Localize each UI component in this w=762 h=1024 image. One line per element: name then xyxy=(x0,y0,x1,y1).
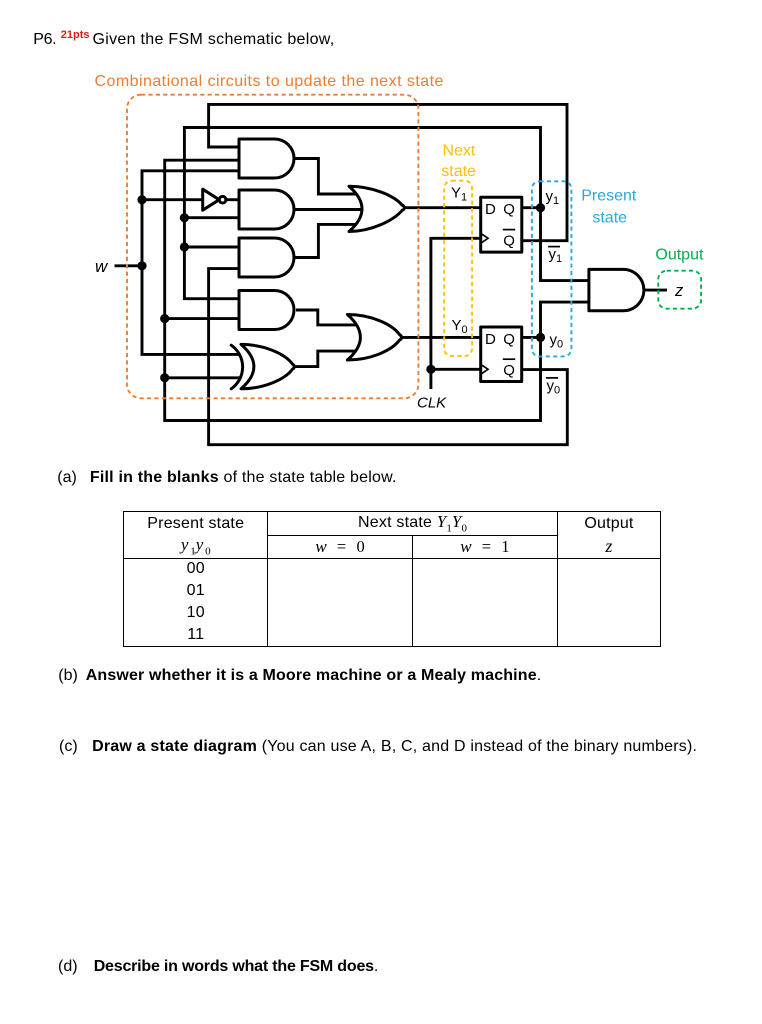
FF0 clock triangle xyxy=(481,364,488,374)
svg-text:z: z xyxy=(674,282,684,300)
xor gate XOR body xyxy=(241,344,294,388)
svg-text:Q: Q xyxy=(503,331,515,348)
and gate AND3 xyxy=(239,238,294,277)
dashed box present state xyxy=(532,181,572,356)
dashed box combinational circuits xyxy=(127,95,418,399)
wire FF0 Q output stub xyxy=(522,336,541,339)
wire y1 branch to AND2 pin2 xyxy=(184,216,239,219)
inverter NOT xyxy=(203,189,220,210)
wire NOT output to AND2 pin1 xyxy=(226,198,239,201)
svg-text:D: D xyxy=(485,331,496,348)
junction dot w entry xyxy=(137,261,146,270)
xor gate XOR outer arc xyxy=(231,345,242,389)
paragraph (a) xyxy=(57,470,77,486)
svg-text:Q: Q xyxy=(503,201,515,218)
junction dot y0-AND4 xyxy=(160,314,169,323)
state table xyxy=(123,511,661,646)
wire y0 branch to XOR pin2 xyxy=(165,376,241,379)
wire z output xyxy=(644,289,667,292)
or gate OR2 xyxy=(347,315,401,361)
wire y0 branch to AND4 pin2 xyxy=(165,317,239,320)
paragraph (d) xyxy=(58,959,78,975)
wire AND2 output to OR1 pin2 xyxy=(294,208,362,211)
svg-text:CLK: CLK xyxy=(417,394,447,411)
junction dot y1-AND2 xyxy=(180,213,189,222)
wire CLK vertical to FF1 clock xyxy=(431,238,481,389)
svg-text:Present: Present xyxy=(581,187,637,204)
svg-text:w: w xyxy=(95,257,109,276)
wire ybar0 net: FF0 Qbar around bottom to AND3 pin2 xyxy=(209,269,568,445)
svg-text:Q: Q xyxy=(503,232,515,249)
dashed box next state xyxy=(444,181,472,356)
svg-text:Output: Output xyxy=(655,247,704,264)
svg-text:Q: Q xyxy=(503,362,515,379)
svg-text:y0: y0 xyxy=(547,377,561,396)
wire OR2 output to FF0 D xyxy=(401,336,481,339)
or gate OR1 xyxy=(349,186,404,231)
junction dot CLK branch xyxy=(426,365,435,374)
pin label FF1 Qbar overline xyxy=(503,229,515,231)
pin label FF0 Qbar overline xyxy=(503,358,515,360)
svg-text:y0: y0 xyxy=(550,332,564,351)
flip-flop FF0 box xyxy=(481,327,522,382)
wire y1 branch to AND3 pin1 xyxy=(184,246,239,249)
and gate AND1 xyxy=(239,139,294,178)
wire CLK branch to FF0 clock xyxy=(431,368,481,371)
svg-text:Y1: Y1 xyxy=(451,185,467,204)
and gate AND2 xyxy=(239,190,294,229)
label ybar1 overline xyxy=(548,246,560,248)
svg-text:y1: y1 xyxy=(549,246,563,265)
output and gate Z xyxy=(589,269,644,310)
svg-text:Y0: Y0 xyxy=(452,317,468,336)
wire AND4 output to OR2 pin1 xyxy=(296,310,357,325)
wire OR1 output to FF1 D xyxy=(404,206,481,209)
wire y0 feedback loop: AND1 pin2 around bottom to FF0 Q xyxy=(165,160,541,420)
dashed box output xyxy=(658,271,701,309)
title line xyxy=(33,32,56,48)
paragraph (b) xyxy=(58,668,78,684)
and gate AND4 xyxy=(239,291,294,330)
FF1 clock triangle xyxy=(481,233,488,243)
junction dot w-NOT xyxy=(137,195,146,204)
wire w net vertical with branch to AND1 pin3 and XOR pin1 xyxy=(142,171,241,355)
label ybar0 overline xyxy=(546,377,558,379)
wire XOR output to OR2 pin2 xyxy=(294,351,356,367)
wire y1 feedback loop: AND4 pin1 up across top down to output AND pin1 xyxy=(184,128,589,299)
junction dot y0-XOR xyxy=(160,373,169,382)
svg-text:y1: y1 xyxy=(546,188,560,207)
paragraph (c) xyxy=(59,739,78,755)
wire AND1 output to OR1 pin1 xyxy=(294,159,358,195)
junction dot y1-AND3 xyxy=(180,242,189,251)
svg-text:Next: Next xyxy=(442,143,475,160)
wire y0 branch up to output AND pin2 xyxy=(541,302,589,337)
junction dot y1 at FF1 Q xyxy=(536,203,545,212)
svg-text:D: D xyxy=(485,201,496,218)
wire AND3 output to OR1 pin3 xyxy=(294,224,358,257)
svg-text:state: state xyxy=(441,163,476,180)
junction dot y0 at FF0 Q xyxy=(536,333,545,342)
svg-text:state: state xyxy=(592,210,627,227)
svg-text:Combinational circuits to upda: Combinational circuits to update the nex… xyxy=(95,73,444,90)
wire w input stub xyxy=(115,264,143,267)
wire FF1 Q output stub xyxy=(522,206,541,209)
wire w to NOT input xyxy=(142,198,203,201)
flip-flop FF1 box xyxy=(481,197,522,252)
wire ybar1 net: FF1 Qbar up across top down to AND1 pin1 xyxy=(209,104,567,240)
inverter NOT bubble xyxy=(219,196,226,203)
